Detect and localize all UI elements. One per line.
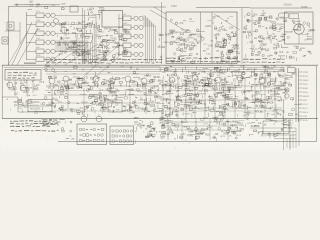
capacitor C125	[212, 86, 215, 89]
wire	[286, 74, 292, 76]
wire	[95, 72, 97, 76]
label text	[273, 58, 276, 59]
coil L39	[251, 53, 253, 55]
capacitor C152	[195, 107, 196, 108]
wire	[125, 91, 127, 95]
wire	[76, 50, 78, 53]
tube V109	[222, 112, 224, 114]
capacitor C146	[132, 102, 134, 104]
capacitor C74	[294, 23, 295, 24]
wire	[254, 75, 257, 77]
resistor R47	[189, 108, 193, 110]
wire	[2, 118, 318, 120]
wire	[98, 54, 100, 56]
wire	[155, 26, 157, 62]
wire	[186, 44, 189, 46]
wire	[183, 43, 185, 47]
wire	[263, 99, 270, 101]
label text	[254, 37, 257, 40]
svg-text:7L8: 7L8	[279, 51, 284, 54]
label text	[29, 120, 33, 121]
label text	[259, 40, 260, 43]
wire	[94, 110, 96, 113]
capacitor C101	[99, 93, 101, 95]
capacitor C48	[222, 42, 225, 44]
resistor R1	[61, 8, 64, 10]
wire	[58, 14, 96, 16]
capacitor C36	[213, 16, 215, 18]
tube V72	[110, 90, 112, 92]
resistor R19	[26, 89, 29, 91]
tube V88	[169, 77, 175, 83]
tube V104	[221, 88, 223, 90]
label text	[179, 99, 182, 102]
label text	[304, 54, 306, 57]
wire	[89, 16, 96, 18]
wire	[184, 100, 186, 103]
label text	[110, 59, 113, 62]
wire	[248, 20, 256, 22]
label text	[267, 55, 270, 58]
label text	[266, 99, 268, 102]
tube V116	[103, 104, 106, 107]
tube V100	[187, 93, 190, 96]
svg-text:RL0: RL0	[205, 134, 210, 137]
svg-text:4VR6: 4VR6	[187, 135, 194, 138]
wire	[308, 26, 310, 28]
capacitor C91	[104, 79, 106, 81]
label text	[29, 94, 30, 97]
wire	[160, 99, 284, 101]
wire	[167, 98, 171, 100]
wire	[14, 4, 60, 6]
label text	[23, 75, 26, 76]
wire	[253, 69, 255, 71]
label text	[21, 123, 24, 124]
wire	[157, 101, 161, 103]
wire	[94, 81, 96, 85]
wire	[99, 15, 101, 19]
label text	[179, 58, 180, 61]
svg-text:272.: 272.	[162, 118, 167, 120]
wire	[266, 20, 272, 22]
coil L69	[178, 87, 182, 89]
wire	[258, 78, 260, 80]
wire	[244, 78, 246, 118]
label text	[261, 99, 263, 102]
label text	[63, 62, 67, 63]
label text	[176, 90, 178, 93]
wire	[143, 17, 148, 19]
label text	[24, 63, 36, 64]
wire	[185, 80, 187, 82]
label text	[165, 80, 168, 83]
label text	[187, 101, 190, 104]
label text	[238, 100, 240, 103]
label text	[66, 29, 68, 32]
wire	[191, 59, 193, 63]
wire	[155, 95, 162, 97]
label text	[186, 82, 187, 85]
wire	[275, 17, 278, 19]
svg-text:LR: LR	[222, 27, 225, 31]
label text	[175, 105, 177, 108]
label text	[42, 121, 47, 122]
resistor R18	[293, 51, 297, 53]
label text	[55, 123, 58, 124]
wire	[254, 77, 257, 79]
wire	[83, 47, 85, 62]
label text	[282, 59, 285, 60]
resistor R26	[60, 108, 63, 110]
label text	[101, 99, 103, 102]
label text	[274, 81, 277, 84]
wire	[14, 80, 16, 96]
wire	[234, 86, 242, 88]
svg-text:VM7: VM7	[175, 96, 180, 98]
wire	[201, 88, 203, 91]
label text	[204, 61, 208, 62]
wire	[55, 14, 58, 16]
wire	[90, 30, 92, 35]
tube V71	[141, 78, 147, 84]
coil L44	[95, 84, 98, 86]
label text	[275, 93, 278, 96]
svg-text:4L.: 4L.	[26, 100, 30, 103]
coil L18	[123, 39, 127, 41]
wire	[244, 112, 250, 114]
wire	[132, 80, 137, 82]
capacitor C151	[238, 105, 241, 107]
label text	[22, 78, 25, 79]
label text	[123, 105, 125, 108]
label text	[268, 62, 271, 63]
wire	[91, 36, 93, 40]
wire	[253, 45, 255, 48]
label text	[95, 100, 98, 103]
wire	[279, 114, 281, 116]
capacitor C144	[143, 84, 145, 86]
wire	[84, 110, 86, 113]
wire	[274, 78, 276, 118]
wire	[165, 111, 167, 115]
wire	[53, 84, 55, 89]
wire	[49, 84, 51, 89]
label text	[121, 39, 124, 42]
label text	[93, 59, 98, 60]
tube V35	[139, 43, 143, 47]
label text	[249, 68, 252, 71]
coil L40	[277, 45, 280, 47]
label text	[171, 61, 174, 62]
label text	[291, 75, 293, 78]
label text	[25, 101, 26, 104]
coil L30	[226, 61, 229, 62]
label text	[184, 93, 186, 96]
svg-text:R0MM: R0MM	[230, 124, 237, 127]
wire	[139, 99, 147, 101]
wire	[265, 75, 267, 79]
wire	[46, 66, 50, 68]
wire	[274, 109, 282, 111]
tube V118	[285, 88, 289, 92]
wire	[146, 83, 148, 86]
wire	[60, 109, 66, 111]
wire	[251, 70, 253, 73]
capacitor C95	[89, 96, 92, 99]
capacitor C123	[256, 105, 258, 107]
wire	[266, 102, 268, 104]
svg-text:5K1R: 5K1R	[153, 75, 160, 79]
capacitor C1	[45, 6, 48, 8]
label text	[147, 110, 150, 113]
wire	[230, 37, 232, 41]
label text	[310, 52, 312, 55]
wire	[222, 113, 224, 116]
wire	[209, 101, 211, 104]
wire	[158, 87, 160, 91]
label text	[154, 59, 157, 60]
capacitor C40	[215, 37, 217, 39]
label text	[283, 111, 285, 114]
svg-text:MKK5: MKK5	[303, 96, 310, 98]
svg-text:K.7C: K.7C	[270, 83, 276, 86]
wire	[58, 50, 89, 52]
wire	[87, 52, 89, 55]
wire	[145, 88, 147, 114]
label text	[277, 96, 280, 99]
svg-text:452M: 452M	[55, 90, 60, 92]
wire	[176, 74, 178, 77]
capacitor C148	[222, 95, 224, 97]
paper background	[0, 0, 320, 156]
resistor R23	[104, 95, 107, 97]
resistor R30	[94, 100, 98, 102]
label text	[57, 124, 59, 125]
wire	[58, 23, 94, 25]
label text	[159, 45, 161, 48]
part X1	[7, 22, 14, 30]
wire	[156, 95, 158, 98]
capacitor C119	[226, 103, 228, 105]
svg-text:2R: 2R	[215, 96, 218, 99]
label text	[112, 62, 114, 63]
wire	[118, 14, 120, 56]
coil L21	[123, 34, 131, 39]
wire	[23, 102, 25, 104]
wire	[275, 77, 277, 81]
wire	[164, 84, 166, 88]
wire	[58, 141, 316, 143]
capacitor C104	[89, 94, 93, 96]
coil L14	[98, 11, 101, 13]
tube V50	[273, 28, 276, 31]
tube V30	[134, 25, 138, 29]
wire	[269, 80, 274, 82]
label text	[190, 61, 192, 62]
tube V37	[139, 52, 143, 56]
wire	[92, 102, 94, 104]
label text	[77, 49, 80, 52]
wire	[298, 107, 302, 109]
wire	[174, 102, 176, 105]
capacitor C120	[227, 87, 230, 90]
wire	[216, 37, 218, 40]
label text	[105, 59, 107, 62]
wire	[188, 105, 194, 107]
wire	[272, 95, 279, 97]
label text	[50, 123, 53, 124]
svg-text:42M: 42M	[221, 80, 225, 82]
tube V95	[255, 74, 258, 77]
wire	[270, 79, 272, 82]
capacitor C109	[209, 81, 212, 83]
wire	[77, 45, 85, 47]
coil L27	[221, 55, 224, 57]
wire	[184, 85, 190, 87]
wire	[84, 35, 91, 37]
label text	[98, 13, 101, 16]
wire	[13, 86, 15, 89]
wire	[198, 93, 200, 95]
label text	[193, 58, 197, 59]
wire	[262, 25, 265, 27]
label text	[142, 98, 143, 101]
capacitor C124	[193, 72, 196, 75]
wire	[86, 77, 88, 79]
wire	[260, 89, 262, 93]
label text	[82, 62, 86, 63]
tube V93	[210, 75, 212, 77]
wire	[201, 95, 203, 98]
label text	[176, 87, 179, 90]
tube V83	[90, 86, 93, 89]
coil L41	[274, 47, 277, 49]
label text	[261, 62, 266, 63]
wire	[283, 34, 285, 37]
svg-text:.6VK: .6VK	[240, 65, 246, 68]
capacitor C43	[223, 45, 226, 47]
label text	[220, 52, 222, 55]
capacitor C59	[282, 36, 283, 37]
svg-text:R22C: R22C	[219, 107, 225, 109]
label text	[106, 63, 110, 64]
resistor R10	[230, 50, 233, 52]
coil L23	[123, 52, 131, 57]
tube V59	[147, 74, 149, 76]
wire	[121, 111, 125, 113]
wire	[157, 105, 159, 108]
wire	[278, 87, 280, 89]
capacitor C22	[117, 44, 120, 47]
label text	[257, 62, 260, 63]
wire	[113, 84, 115, 89]
wire	[25, 4, 31, 6]
wire	[161, 115, 163, 118]
capacitor C8	[72, 22, 75, 24]
svg-text:.0M: .0M	[220, 83, 224, 87]
capacitor C9	[85, 37, 89, 39]
wire	[246, 106, 248, 110]
resistor R7	[177, 38, 180, 40]
resistor R14	[227, 53, 230, 55]
wire	[237, 76, 242, 78]
svg-text:L22R: L22R	[205, 25, 211, 28]
label text	[119, 62, 124, 63]
resistor R17	[307, 38, 311, 39]
svg-text:84.C: 84.C	[303, 108, 308, 110]
wire	[259, 84, 261, 89]
wire	[82, 81, 87, 83]
wire	[75, 80, 77, 84]
wire	[80, 86, 83, 88]
label text	[307, 32, 309, 35]
label text	[128, 59, 130, 60]
wire	[271, 105, 273, 108]
label text	[250, 74, 252, 77]
wire	[216, 111, 219, 113]
capacitor C113	[262, 101, 264, 103]
label text	[234, 101, 237, 104]
capacitor C2	[83, 27, 86, 29]
wire	[86, 44, 88, 47]
label text	[170, 83, 172, 86]
svg-text:5R28: 5R28	[238, 71, 245, 74]
wire	[282, 47, 289, 49]
coil L66	[255, 98, 257, 100]
label text	[216, 32, 219, 35]
wire	[174, 41, 180, 43]
label text	[49, 120, 52, 121]
tube V33	[139, 34, 143, 38]
wire	[241, 73, 243, 77]
wire	[82, 49, 84, 62]
svg-text:20C: 20C	[130, 107, 135, 109]
wire	[55, 50, 58, 52]
wire	[131, 35, 134, 37]
capacitor C42	[215, 27, 217, 29]
label text	[97, 46, 99, 49]
capacitor C31	[178, 59, 180, 61]
wire	[214, 56, 221, 58]
wire	[184, 91, 186, 95]
wire	[162, 78, 164, 118]
wire	[231, 105, 233, 109]
coil L6	[36, 57, 44, 62]
wire	[44, 94, 160, 96]
wire	[205, 79, 207, 83]
capacitor C112	[211, 110, 215, 112]
tube V13	[9, 24, 12, 27]
wire	[143, 19, 150, 21]
label text	[48, 91, 51, 94]
wire	[91, 66, 98, 68]
wire	[251, 86, 253, 90]
wire	[244, 15, 246, 18]
label text	[37, 3, 40, 6]
label text	[16, 123, 20, 124]
label text	[85, 80, 87, 83]
wire	[251, 94, 253, 98]
coil L8	[78, 29, 82, 31]
svg-text:RM: RM	[183, 40, 187, 44]
wire	[174, 103, 176, 107]
label text	[117, 59, 122, 60]
tube V51	[276, 52, 278, 54]
wire	[10, 109, 12, 111]
label text	[54, 60, 57, 61]
wire	[44, 58, 46, 60]
